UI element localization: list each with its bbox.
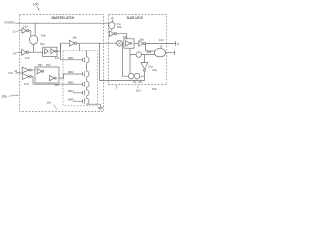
svg-text:18a: 18a <box>117 26 122 29</box>
slave: stub into tgate <box>111 20 113 23</box>
wire clock box to MN2 gate <box>59 74 82 78</box>
svg-text:10b: 10b <box>152 87 157 91</box>
pin tick QN <box>174 51 176 55</box>
svg-text:CLK: CLK <box>8 71 13 75</box>
tgate circle in slave chain <box>117 40 123 46</box>
inverter 11b <box>20 51 22 53</box>
svg-text:13b: 13b <box>72 36 77 40</box>
wire: input rail <box>15 22 109 24</box>
wire <box>144 55 146 63</box>
wire lower clock rail to MN3 gate <box>31 77 82 85</box>
pin tick Q <box>175 41 177 45</box>
wire <box>134 42 139 44</box>
svg-text:12: 12 <box>13 30 17 34</box>
wire <box>33 44 35 52</box>
svg-text:Q: Q <box>177 42 180 46</box>
svg-text:15b: 15b <box>37 63 42 67</box>
svg-text:16b: 16b <box>46 63 51 67</box>
transmission gate 17a <box>109 22 115 29</box>
svg-text:SLAVE LATCH: SLAVE LATCH <box>127 16 143 20</box>
svg-text:11c: 11c <box>55 56 60 60</box>
transmission gate 14a <box>29 35 37 44</box>
slave latch dashed box 10d <box>109 15 167 85</box>
svg-text:19a: 19a <box>139 37 144 41</box>
svg-text:10d: 10d <box>136 88 141 92</box>
output wire Q <box>146 43 176 45</box>
svg-text:MN1: MN1 <box>68 56 74 60</box>
tick near slave bottom left <box>116 85 117 89</box>
inverter 19a <box>139 41 144 46</box>
wire <box>117 34 127 44</box>
tgate circle 19c <box>128 73 134 79</box>
svg-text:20c: 20c <box>138 81 143 84</box>
inverter 12a (upper) <box>22 67 29 72</box>
svg-text:MN3: MN3 <box>68 81 74 85</box>
wire <box>111 29 113 31</box>
wire into stack top / MN1 gate <box>61 43 83 60</box>
svg-text:15a: 15a <box>40 42 45 46</box>
inverter 13b <box>69 40 74 46</box>
slave latch box 15c <box>124 39 134 48</box>
svg-text:21a: 21a <box>148 64 153 68</box>
svg-text:FILTERED: FILTERED <box>4 21 15 25</box>
buffer box 15b/16b <box>35 67 59 83</box>
tgate circle 20c <box>134 73 140 79</box>
feedback row wire <box>122 75 145 77</box>
wire <box>130 54 154 56</box>
stack drain rail with bumps <box>87 50 101 107</box>
wire master output to slave <box>77 42 118 44</box>
tgate circle 20b on feedback <box>136 52 141 57</box>
wire <box>16 72 23 74</box>
svg-text:16: 16 <box>111 17 114 20</box>
svg-text:20a: 20a <box>147 50 152 54</box>
svg-text:19c: 19c <box>133 81 138 84</box>
wire <box>144 71 146 80</box>
svg-text:18: 18 <box>160 45 163 48</box>
wire <box>31 69 35 71</box>
svg-text:11b: 11b <box>25 56 30 60</box>
svg-text:MN4: MN4 <box>68 89 74 93</box>
svg-text:MASTER LATCH: MASTER LATCH <box>52 16 75 20</box>
buffer 13a <box>20 30 23 32</box>
wire <box>29 51 43 53</box>
svg-text:MN2: MN2 <box>68 70 74 74</box>
tap into stack <box>79 43 81 50</box>
svg-text:19b: 19b <box>159 38 164 42</box>
ground <box>97 107 103 110</box>
gate 20a <box>154 49 165 57</box>
svg-text:11e: 11e <box>54 83 59 87</box>
svg-text:14a: 14a <box>41 33 46 37</box>
master latch dashed box 10a <box>20 15 104 112</box>
feedback inverter 21a (down) <box>141 63 148 70</box>
branch to gate <box>146 44 155 52</box>
svg-text:13a: 13a <box>23 25 28 29</box>
svg-text:100: 100 <box>33 2 39 6</box>
inner dashed transistor box <box>63 51 98 106</box>
svg-text:16: 16 <box>14 69 17 73</box>
transmission gate 19c column riser <box>121 43 123 76</box>
gate output pin <box>166 52 175 54</box>
riser 2 <box>129 48 131 73</box>
wire <box>57 43 69 51</box>
svg-text:10c: 10c <box>47 101 52 105</box>
svg-text:11d: 11d <box>24 82 29 86</box>
inverter 18a <box>109 31 114 37</box>
svg-text:10a: 10a <box>1 95 7 99</box>
wire <box>29 23 35 36</box>
svg-text:14: 14 <box>13 52 17 56</box>
inverter 11d (lower) <box>22 74 29 80</box>
wire feedback down <box>100 43 145 80</box>
leader arrow for 100 <box>37 7 39 10</box>
latch box 15a <box>43 47 57 56</box>
svg-text:15c: 15c <box>123 35 128 39</box>
svg-text:21b: 21b <box>152 68 157 72</box>
